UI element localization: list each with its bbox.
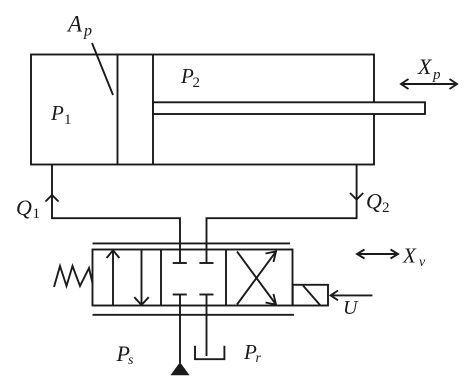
valve center blocked port bar bottom-left	[173, 294, 187, 296]
label Ps	[116, 341, 135, 368]
svg-text:p: p	[432, 67, 441, 83]
valve divider 2	[225, 250, 227, 306]
valve divider 1	[160, 250, 162, 306]
solenoid	[293, 285, 328, 306]
svg-text:Q: Q	[16, 195, 32, 220]
valve center blocked port bar top-right	[199, 262, 213, 264]
arrow Q1 up	[46, 195, 59, 202]
wire Q1	[52, 165, 180, 264]
proportional line top	[93, 242, 291, 244]
piston rod	[153, 102, 425, 114]
svg-text:P: P	[50, 101, 64, 125]
svg-text:2: 2	[382, 200, 390, 216]
svg-text:X: X	[417, 54, 433, 79]
label Q1	[16, 195, 40, 222]
valve body	[93, 250, 293, 306]
cylinder body	[31, 55, 374, 165]
arrow Xp double	[401, 79, 457, 89]
valve right section crossed arrow 2	[237, 252, 276, 305]
supply line Ps	[179, 295, 181, 364]
supply triangle	[171, 363, 188, 375]
leader line Ap	[92, 43, 113, 95]
label Pr	[243, 340, 262, 366]
label P1	[50, 101, 72, 128]
proportional line bottom	[93, 314, 295, 316]
input U arrow	[331, 291, 373, 301]
valve left section up arrow	[107, 250, 120, 305]
valve center blocked port bar top-left	[173, 262, 187, 264]
label Xv	[402, 244, 426, 271]
valve right section crossed arrow 1	[237, 252, 276, 305]
label Xp	[417, 54, 441, 83]
svg-text:1: 1	[33, 206, 41, 222]
valve left section down arrow	[134, 250, 148, 306]
svg-text:X: X	[402, 244, 417, 268]
wire Q2	[207, 165, 357, 264]
svg-text:Q: Q	[366, 189, 382, 214]
label Ap	[66, 12, 92, 40]
spring	[54, 266, 93, 287]
svg-text:A: A	[66, 12, 83, 37]
solenoid diagonal	[303, 286, 320, 306]
svg-text:2: 2	[193, 75, 201, 91]
tank symbol	[195, 346, 224, 360]
svg-text:1: 1	[64, 112, 72, 128]
svg-text:v: v	[419, 255, 426, 270]
svg-text:U: U	[343, 297, 359, 319]
svg-text:s: s	[128, 353, 134, 368]
piston	[118, 55, 154, 165]
valve center blocked port bar bottom-right	[199, 294, 213, 296]
arrow Xv double	[357, 250, 398, 259]
arrow Q2 down	[350, 193, 363, 200]
label P2	[180, 64, 200, 91]
svg-text:r: r	[256, 351, 262, 366]
return line Pr	[206, 295, 208, 357]
svg-text:p: p	[83, 23, 92, 40]
label Q2	[366, 189, 390, 217]
